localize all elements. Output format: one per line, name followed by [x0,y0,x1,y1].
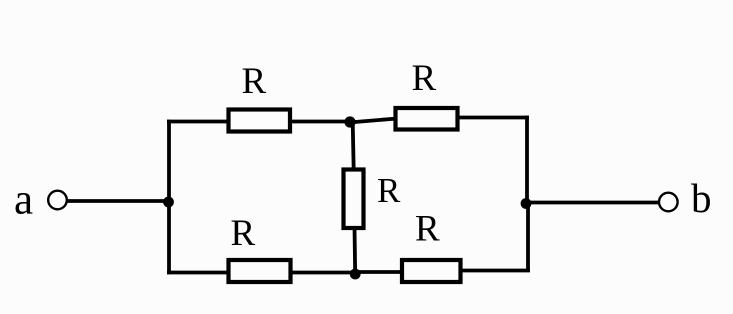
wire right vertical (top) [525,116,529,205]
svg-text:R: R [412,58,437,99]
svg-text:R: R [377,171,401,210]
node a terminal circle [48,191,67,210]
svg-text:R: R [415,209,440,250]
svg-text:R: R [242,61,267,102]
node bottom-middle junction dot [350,269,361,280]
wire resistor R1 to top middle node [290,120,352,124]
node top-middle junction dot [344,116,355,127]
resistor R1 (top left) [229,110,291,132]
wire right junction to b terminal [527,201,659,205]
resistor R2 (top right) [396,108,458,130]
wire bottom middle node to resistor R3 [290,271,356,275]
resistor R4 (bottom right) [402,260,461,282]
wire resistor R5 to bottom middle node [353,227,358,275]
wire middle vertical (node to resistor R5) [353,122,354,170]
node B junction dot (right) [521,198,532,209]
node A junction dot (left) [163,197,174,208]
wire right vertical (bottom) [526,202,530,272]
wire left node to resistor R1 [167,120,228,124]
resistor R3 (bottom left) [229,260,291,282]
wire a to left junction [68,199,172,203]
wire resistor R2 to top-right corner [457,116,529,120]
node b terminal circle [659,193,678,212]
wire top middle node to resistor R2 [349,119,397,123]
svg-text:a: a [14,177,33,224]
resistor R5 (middle vertical) [344,170,364,229]
wire left vertical [167,120,171,275]
svg-text:b: b [691,175,712,221]
wire resistor R3 to bottom-left corner [167,271,230,275]
wire resistor R4 to bottom middle node [354,270,403,274]
svg-text:R: R [231,213,256,254]
wire bottom-right corner to resistor R4 [460,269,530,273]
